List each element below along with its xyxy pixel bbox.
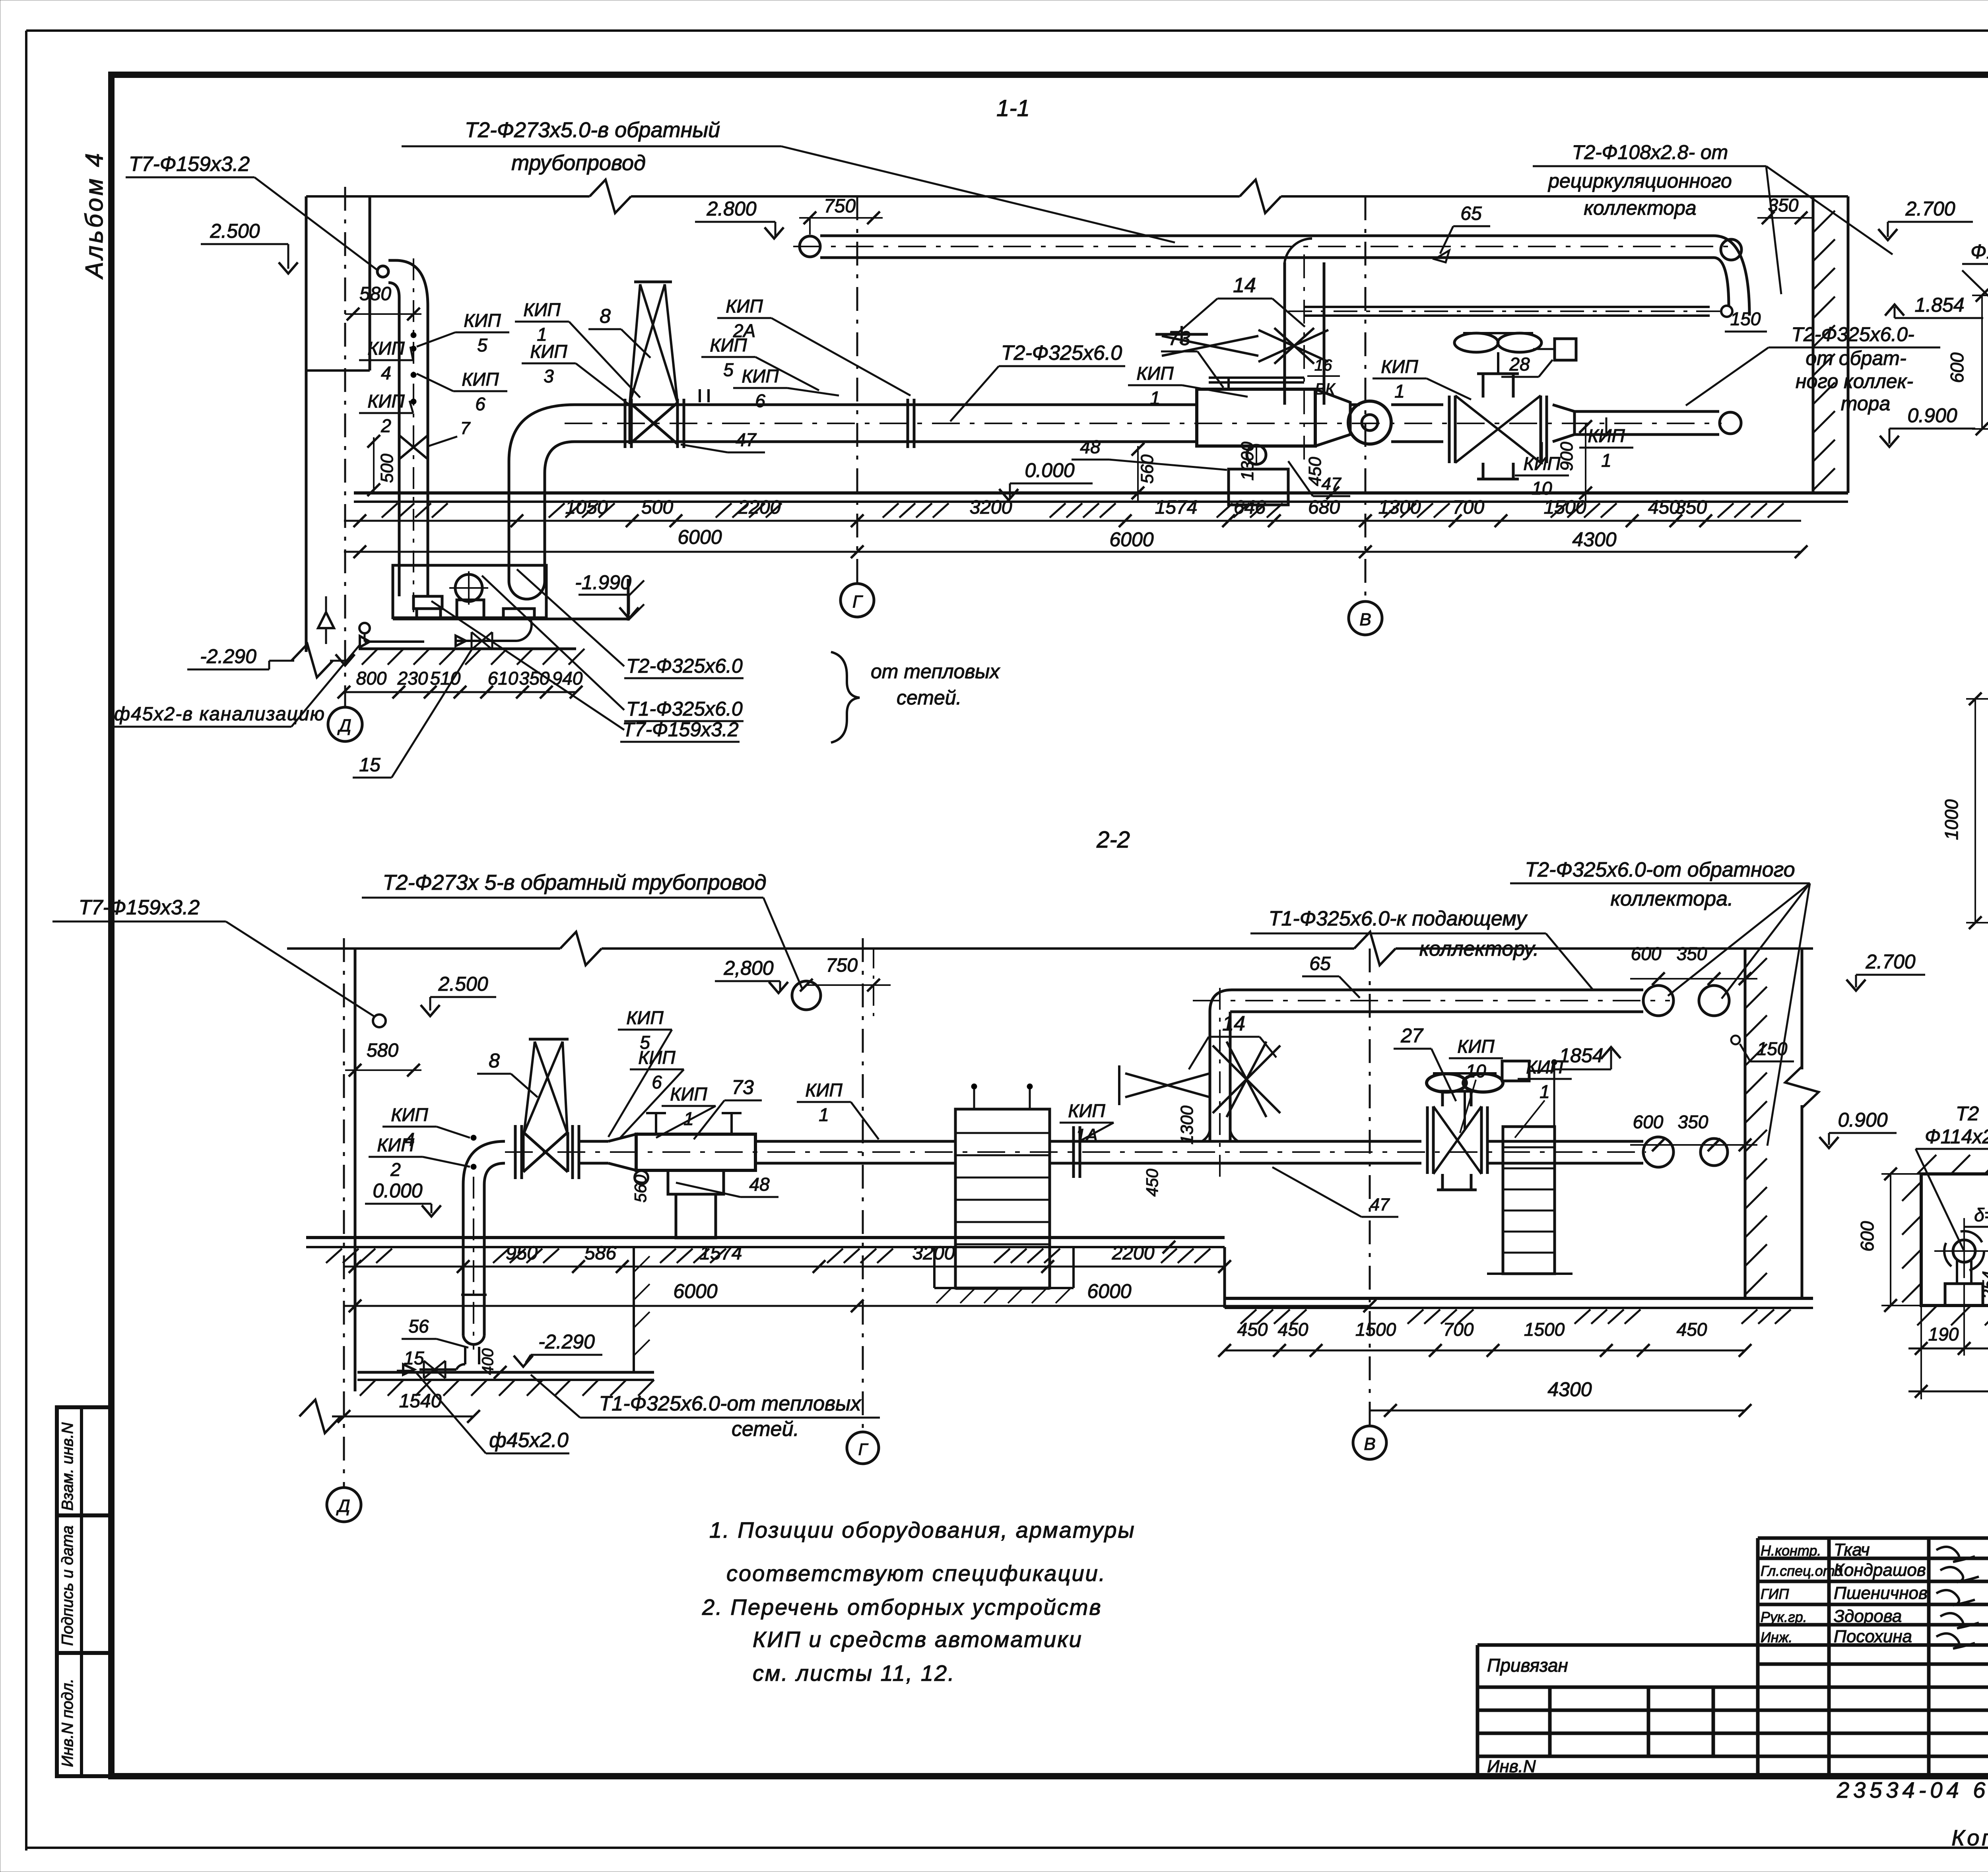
svg-text:6000: 6000 bbox=[1109, 528, 1153, 551]
svg-text:КИП: КИП bbox=[638, 1047, 676, 1068]
svg-text:6000: 6000 bbox=[673, 1280, 717, 1302]
svg-text:КИП: КИП bbox=[1526, 1057, 1563, 1077]
svg-text:ГИП: ГИП bbox=[1761, 1586, 1789, 1602]
svg-text:1300: 1300 bbox=[1378, 497, 1421, 518]
svg-text:1574: 1574 bbox=[700, 1243, 742, 1264]
svg-text:4300: 4300 bbox=[1572, 528, 1616, 551]
svg-text:1-1: 1-1 bbox=[996, 95, 1030, 121]
svg-text:Кондрашов: Кондрашов bbox=[1834, 1560, 1926, 1580]
svg-text:750: 750 bbox=[826, 955, 858, 976]
svg-text:трубопровод: трубопровод bbox=[511, 151, 646, 175]
svg-text:ного коллек-: ного коллек- bbox=[1796, 370, 1913, 392]
svg-text:560: 560 bbox=[631, 1174, 650, 1203]
svg-text:Т1-Ф325х6.0: Т1-Ф325х6.0 bbox=[626, 698, 743, 720]
svg-text:48: 48 bbox=[749, 1174, 770, 1195]
svg-text:Д: Д bbox=[336, 1496, 350, 1516]
svg-text:В: В bbox=[1364, 1434, 1375, 1454]
svg-text:ВК: ВК bbox=[1315, 380, 1336, 398]
svg-text:190: 190 bbox=[1928, 1324, 1959, 1344]
svg-text:коллектора.: коллектора. bbox=[1611, 887, 1734, 910]
svg-text:сетей.: сетей. bbox=[897, 687, 961, 709]
svg-text:Т2: Т2 bbox=[1956, 1102, 1979, 1125]
svg-text:1300: 1300 bbox=[1238, 442, 1257, 481]
svg-text:КИП: КИП bbox=[626, 1007, 664, 1028]
svg-text:47: 47 bbox=[736, 429, 757, 450]
svg-text:1: 1 bbox=[1150, 388, 1160, 408]
svg-text:450: 450 bbox=[1278, 1319, 1309, 1340]
svg-text:1050: 1050 bbox=[565, 497, 608, 518]
svg-text:Т1-Ф325х6.0-от тепловых: Т1-Ф325х6.0-от тепловых bbox=[599, 1392, 862, 1415]
svg-text:2.700: 2.700 bbox=[1865, 951, 1915, 973]
svg-text:КИП: КИП bbox=[377, 1135, 414, 1155]
svg-text:2.500: 2.500 bbox=[210, 220, 260, 242]
svg-text:δ=50: δ=50 bbox=[1974, 1205, 1988, 1225]
svg-text:1.854: 1.854 bbox=[1914, 294, 1964, 316]
svg-text:Инж.: Инж. bbox=[1761, 1629, 1792, 1645]
svg-text:В: В bbox=[1359, 610, 1371, 629]
svg-text:КИП и средств автоматики: КИП и средств автоматики bbox=[753, 1627, 1083, 1652]
svg-text:Т2-Ф325х6.0-: Т2-Ф325х6.0- bbox=[1791, 323, 1914, 345]
svg-text:2: 2 bbox=[381, 415, 391, 436]
svg-text:350: 350 bbox=[1677, 943, 1707, 964]
svg-text:КИП: КИП bbox=[805, 1080, 843, 1100]
svg-text:1854: 1854 bbox=[1559, 1044, 1603, 1067]
svg-text:47: 47 bbox=[1322, 474, 1342, 494]
svg-text:0.000: 0.000 bbox=[373, 1179, 422, 1202]
svg-text:Альбом 4: Альбом 4 bbox=[81, 151, 108, 280]
svg-text:646: 646 bbox=[1234, 497, 1266, 518]
svg-text:2.500: 2.500 bbox=[438, 973, 488, 995]
svg-text:Т2-Ф325х6.0: Т2-Ф325х6.0 bbox=[1001, 341, 1122, 365]
svg-text:560: 560 bbox=[1138, 454, 1157, 484]
svg-text:Подпись и дата: Подпись и дата bbox=[59, 1525, 76, 1646]
svg-text:56: 56 bbox=[408, 1316, 429, 1337]
svg-text:600: 600 bbox=[1631, 943, 1662, 964]
svg-text:1А: 1А bbox=[1076, 1125, 1098, 1146]
svg-text:3200: 3200 bbox=[970, 497, 1012, 518]
svg-text:1: 1 bbox=[819, 1104, 829, 1125]
svg-text:3: 3 bbox=[544, 366, 554, 386]
svg-text:соответствуют спецификации.: соответствуют спецификации. bbox=[726, 1561, 1106, 1586]
svg-text:150: 150 bbox=[1730, 308, 1761, 329]
svg-text:47: 47 bbox=[1370, 1195, 1390, 1214]
svg-text:700: 700 bbox=[1443, 1319, 1474, 1340]
svg-text:Посохина: Посохина bbox=[1834, 1627, 1912, 1646]
svg-text:2. Перечень отборных устр: 2. Перечень отборных устройств bbox=[702, 1595, 1102, 1620]
svg-text:2,800: 2,800 bbox=[723, 957, 773, 979]
svg-text:2.700: 2.700 bbox=[1905, 198, 1955, 220]
svg-text:Г: Г bbox=[858, 1440, 869, 1459]
svg-text:-2.290: -2.290 bbox=[538, 1331, 595, 1353]
svg-text:65: 65 bbox=[1460, 203, 1482, 224]
svg-text:450: 450 bbox=[1237, 1319, 1268, 1340]
svg-text:580: 580 bbox=[367, 1040, 398, 1061]
svg-text:ф45х2.0: ф45х2.0 bbox=[489, 1429, 569, 1452]
svg-text:800: 800 bbox=[356, 668, 387, 689]
svg-text:23534-04 63: 23534-04 63 bbox=[1837, 1777, 1988, 1802]
svg-text:0.000: 0.000 bbox=[1025, 459, 1074, 481]
svg-text:Т2-Ф325х6.0-от обратного: Т2-Ф325х6.0-от обратного bbox=[1525, 858, 1795, 881]
svg-text:610: 610 bbox=[488, 668, 518, 689]
svg-text:Н.контр.: Н.контр. bbox=[1761, 1542, 1821, 1559]
svg-text:500: 500 bbox=[377, 454, 397, 483]
svg-text:680: 680 bbox=[1308, 497, 1340, 518]
svg-text:2.800: 2.800 bbox=[706, 198, 756, 220]
svg-text:500: 500 bbox=[641, 497, 673, 518]
svg-text:Инв.N: Инв.N bbox=[1487, 1757, 1536, 1776]
svg-text:5: 5 bbox=[723, 359, 734, 380]
svg-text:КИП: КИП bbox=[464, 310, 501, 331]
svg-text:от тепловых: от тепловых bbox=[871, 660, 1000, 683]
svg-text:450: 450 bbox=[1143, 1168, 1161, 1197]
svg-text:Г: Г bbox=[852, 592, 863, 611]
svg-text:0.900: 0.900 bbox=[1838, 1109, 1887, 1131]
svg-text:15: 15 bbox=[359, 755, 381, 776]
svg-text:586: 586 bbox=[584, 1243, 616, 1264]
svg-text:КИП: КИП bbox=[1381, 356, 1418, 377]
svg-text:4300: 4300 bbox=[1547, 1378, 1592, 1401]
svg-text:КИП: КИП bbox=[1068, 1100, 1105, 1121]
svg-text:510: 510 bbox=[430, 668, 461, 689]
svg-text:350: 350 bbox=[1678, 1112, 1708, 1132]
svg-text:5: 5 bbox=[477, 335, 487, 355]
svg-text:400: 400 bbox=[479, 1348, 497, 1375]
svg-text:КИП: КИП bbox=[523, 299, 561, 320]
svg-text:Взам. инв.N: Взам. инв.N bbox=[59, 1422, 76, 1511]
svg-text:Т2-Ф108х2.8- от: Т2-Ф108х2.8- от bbox=[1572, 141, 1728, 163]
svg-text:254: 254 bbox=[1979, 1271, 1988, 1299]
svg-text:2200: 2200 bbox=[738, 497, 781, 518]
svg-text:Т2-Ф273х 5-в обратный трубопр: Т2-Ф273х 5-в обратный трубопровод bbox=[382, 871, 766, 894]
svg-text:600: 600 bbox=[1947, 352, 1967, 383]
svg-text:450: 450 bbox=[1677, 1319, 1707, 1340]
svg-text:7: 7 bbox=[460, 419, 471, 438]
svg-text:КИП: КИП bbox=[710, 335, 747, 355]
svg-text:от обрат-: от обрат- bbox=[1806, 347, 1906, 369]
svg-text:КИП: КИП bbox=[1136, 363, 1174, 384]
svg-text:КИП: КИП bbox=[726, 296, 763, 316]
svg-text:сетей.: сетей. bbox=[732, 1418, 799, 1441]
svg-text:коллектора: коллектора bbox=[1584, 197, 1696, 219]
svg-text:350: 350 bbox=[1675, 497, 1707, 518]
svg-text:8: 8 bbox=[600, 305, 611, 327]
svg-text:Гл.спец.отд: Гл.спец.отд bbox=[1761, 1563, 1842, 1579]
svg-text:700: 700 bbox=[1452, 497, 1484, 518]
svg-text:Т2-Ф325х6.0: Т2-Ф325х6.0 bbox=[626, 655, 743, 677]
svg-text:Т7-Ф159х3.2: Т7-Ф159х3.2 bbox=[79, 896, 200, 919]
svg-text:15: 15 bbox=[404, 1348, 424, 1368]
svg-text:КИП: КИП bbox=[1457, 1036, 1495, 1057]
svg-text:Привязан: Привязан bbox=[1487, 1655, 1568, 1676]
svg-text:2: 2 bbox=[390, 1159, 401, 1180]
svg-text:1: 1 bbox=[1394, 381, 1405, 402]
svg-text:Т2-Ф273х5.0-в обратный: Т2-Ф273х5.0-в обратный bbox=[465, 118, 720, 142]
svg-text:580: 580 bbox=[359, 283, 391, 305]
svg-text:Ф159х3,2: Ф159х3,2 bbox=[1971, 241, 1988, 263]
svg-text:коллектору.: коллектору. bbox=[1419, 937, 1539, 960]
svg-text:65: 65 bbox=[1309, 953, 1331, 974]
svg-text:Инв.N подл.: Инв.N подл. bbox=[59, 1678, 76, 1767]
svg-text:1500: 1500 bbox=[1524, 1319, 1565, 1340]
svg-text:6000: 6000 bbox=[678, 526, 722, 548]
svg-text:750: 750 bbox=[824, 196, 856, 217]
svg-text:-2.290: -2.290 bbox=[200, 645, 256, 667]
svg-text:1500: 1500 bbox=[1355, 1319, 1396, 1340]
svg-text:Ф114х2.8: Ф114х2.8 bbox=[1925, 1125, 1988, 1148]
svg-text:КИП: КИП bbox=[462, 369, 499, 390]
svg-text:КИП: КИП bbox=[391, 1104, 428, 1125]
svg-text:КИП: КИП bbox=[367, 391, 405, 411]
svg-text:600: 600 bbox=[1857, 1221, 1877, 1251]
svg-text:Т7-Ф159х3.2: Т7-Ф159х3.2 bbox=[129, 153, 250, 176]
svg-text:КИП: КИП bbox=[670, 1084, 707, 1104]
svg-text:6: 6 bbox=[475, 394, 485, 414]
svg-text:тора: тора bbox=[1841, 392, 1891, 415]
svg-text:Рук.гр.: Рук.гр. bbox=[1761, 1609, 1807, 1625]
svg-text:73: 73 bbox=[732, 1076, 754, 1098]
svg-text:14: 14 bbox=[1222, 1012, 1245, 1035]
svg-text:10: 10 bbox=[1532, 478, 1552, 499]
svg-text:6000: 6000 bbox=[1087, 1280, 1131, 1302]
svg-text:см. листы 11, 12.: см. листы 11, 12. bbox=[753, 1661, 955, 1686]
svg-text:1: 1 bbox=[1601, 450, 1611, 471]
svg-text:1: 1 bbox=[1540, 1081, 1550, 1102]
svg-text:КИП: КИП bbox=[742, 366, 779, 386]
svg-text:2-2: 2-2 bbox=[1096, 827, 1130, 853]
svg-text:950: 950 bbox=[506, 1243, 538, 1264]
svg-text:КИП: КИП bbox=[367, 338, 405, 359]
svg-text:600: 600 bbox=[1633, 1112, 1664, 1132]
svg-text:КИП: КИП bbox=[530, 341, 567, 362]
svg-text:6: 6 bbox=[755, 390, 765, 411]
svg-text:-1.990: -1.990 bbox=[575, 571, 631, 594]
svg-text:Д: Д bbox=[337, 716, 351, 735]
svg-text:6: 6 bbox=[652, 1072, 662, 1092]
svg-text:1. Позиции оборудования, ар: 1. Позиции оборудования, арматуры bbox=[709, 1517, 1136, 1542]
svg-text:Ткач: Ткач bbox=[1834, 1540, 1870, 1560]
svg-text:Пшеничнов: Пшеничнов bbox=[1834, 1583, 1928, 1603]
svg-text:28: 28 bbox=[1509, 354, 1530, 374]
svg-text:ф45х2-в канализацию: ф45х2-в канализацию bbox=[114, 704, 325, 725]
svg-text:27: 27 bbox=[1400, 1024, 1424, 1047]
svg-text:1000: 1000 bbox=[1941, 799, 1962, 840]
svg-text:Т1-Ф325х6.0-к подающему: Т1-Ф325х6.0-к подающему bbox=[1269, 907, 1528, 930]
svg-text:1574: 1574 bbox=[1155, 497, 1198, 518]
svg-text:10: 10 bbox=[1466, 1061, 1486, 1081]
svg-text:Здорова: Здорова bbox=[1834, 1606, 1902, 1626]
svg-text:8: 8 bbox=[489, 1049, 500, 1072]
svg-text:Копировал Салова: Копировал Салова bbox=[1951, 1825, 1988, 1850]
svg-text:230: 230 bbox=[397, 668, 428, 689]
svg-text:48: 48 bbox=[1080, 436, 1101, 457]
svg-text:3200: 3200 bbox=[912, 1243, 955, 1264]
svg-text:16: 16 bbox=[1314, 357, 1332, 374]
svg-text:14: 14 bbox=[1233, 274, 1256, 297]
svg-text:1300: 1300 bbox=[1177, 1106, 1197, 1145]
svg-text:1500: 1500 bbox=[1544, 497, 1586, 518]
svg-text:4: 4 bbox=[381, 363, 391, 383]
svg-text:рециркуляционного: рециркуляционного bbox=[1547, 170, 1732, 192]
svg-text:2200: 2200 bbox=[1112, 1243, 1155, 1264]
svg-text:0.900: 0.900 bbox=[1907, 404, 1957, 427]
